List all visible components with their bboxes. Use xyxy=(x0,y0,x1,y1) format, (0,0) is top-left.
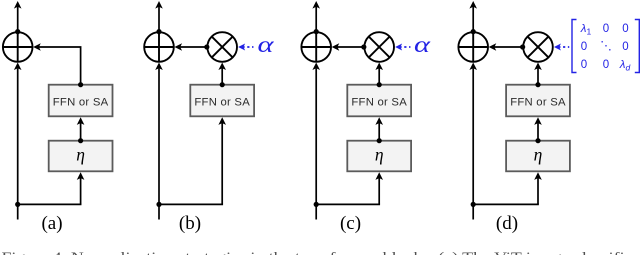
svg-text:0: 0 xyxy=(622,41,628,53)
arrow: top output (d) xyxy=(469,1,477,9)
wire: output of adder (c) to top xyxy=(315,7,317,33)
arrow: into adder bottom (b) xyxy=(155,62,163,70)
wire: input stub (b) xyxy=(158,204,160,219)
multiplier (circle-times) (c) xyxy=(364,32,394,62)
label: diagonal matrix diag(lambda_1..lambda_d) (d) xyxy=(572,20,639,73)
node: dot at multiplier left (d) xyxy=(520,44,525,49)
box: FFN or SA (a) xyxy=(49,85,113,117)
arrow: blue dotted scale input (b) xyxy=(242,46,253,48)
wire: residual branch (d) xyxy=(472,68,474,204)
svg-text:η: η xyxy=(375,144,384,164)
wire: FFN to multiplier (d) xyxy=(537,68,539,85)
box: eta normalization (d) xyxy=(506,141,570,172)
svg-text:0: 0 xyxy=(581,59,587,71)
svg-text:(c): (c) xyxy=(340,213,361,234)
box: eta normalization (c) xyxy=(347,141,411,172)
wire: multiplier to adder (b) xyxy=(180,46,207,48)
arrow: into eta bottom (c) xyxy=(375,172,383,180)
arrow: into adder bottom (d) xyxy=(469,62,477,70)
wire: FFN to multiplier (c) xyxy=(378,68,380,85)
wire: multiplier to adder (c) xyxy=(337,46,364,48)
svg-text:α: α xyxy=(414,31,431,57)
wire: residual branch (c) xyxy=(315,68,317,204)
wire: residual branch (a) xyxy=(17,68,19,204)
node: dot at adder output (b) xyxy=(156,29,161,34)
svg-text:η: η xyxy=(534,144,543,164)
arrow: into adder right (d) xyxy=(489,43,497,51)
node: dot at FFN output (d) xyxy=(535,82,540,87)
multiplier (circle-times) (b) xyxy=(207,32,237,62)
adder (circle-plus) (d) xyxy=(458,32,488,62)
arrow: blue dotted scale input (d) xyxy=(558,46,569,48)
svg-text:FFN or SA: FFN or SA xyxy=(510,97,566,109)
arrow: into adder right (c) xyxy=(332,43,340,51)
arrow: into eta bottom (a) xyxy=(77,172,85,180)
arrow: top output (a) xyxy=(14,1,22,9)
svg-text:0: 0 xyxy=(581,41,587,53)
node: dot at FFN output (b) xyxy=(220,82,225,87)
svg-text:0: 0 xyxy=(622,23,628,35)
arrow: into adder bottom (a) xyxy=(14,62,22,70)
arrow: into FFN bottom (b) xyxy=(218,117,226,125)
node: dot at eta output (d) xyxy=(535,138,540,143)
node: dot at adder output (d) xyxy=(471,29,476,34)
svg-text:(b): (b) xyxy=(179,213,201,234)
arrow: into multiplier bottom (c) xyxy=(375,62,383,70)
svg-text:α: α xyxy=(258,31,275,57)
arrow: into eta bottom (d) xyxy=(534,172,542,180)
box: FFN or SA (d) xyxy=(506,85,570,117)
svg-text:0: 0 xyxy=(603,59,609,71)
svg-text:FFN or SA: FFN or SA xyxy=(194,97,250,109)
node: dot at FFN output (c) xyxy=(377,82,382,87)
node: dot at FFN output (a) xyxy=(78,82,83,87)
box: eta normalization (a) xyxy=(49,141,113,172)
arrow: into adder bottom (c) xyxy=(312,62,320,70)
node: dot at multiplier left (c) xyxy=(361,44,366,49)
svg-text:0: 0 xyxy=(603,23,609,35)
wire: eta to FFN (c) xyxy=(378,122,380,141)
wire: output of adder (d) to top xyxy=(472,7,474,33)
arrow: top output (b) xyxy=(155,1,163,9)
node: bottom junction dot (c) xyxy=(314,202,319,207)
wire: multiplier to adder (d) xyxy=(494,46,522,48)
node: dot at eta output (a) xyxy=(78,138,83,143)
node: bottom junction dot (d) xyxy=(471,202,476,207)
adder (circle-plus) (a) xyxy=(3,32,33,62)
arrow: into FFN bottom (a) xyxy=(77,117,85,125)
multiplier (circle-times) (d) xyxy=(523,32,553,62)
arrow: into multiplier bottom (d) xyxy=(534,62,542,70)
svg-text:FFN or SA: FFN or SA xyxy=(53,97,109,109)
adder (circle-plus) (b) xyxy=(144,32,174,62)
wire: junction to module column (b) xyxy=(158,203,223,205)
adder (circle-plus) (c) xyxy=(301,32,331,62)
node: bottom junction dot (a) xyxy=(15,202,20,207)
arrow: top output (c) xyxy=(312,1,320,9)
svg-text:λd: λd xyxy=(619,59,631,73)
node: dot at eta output (c) xyxy=(377,138,382,143)
wire: eta to FFN (a) xyxy=(80,122,82,141)
svg-text:η: η xyxy=(76,144,85,164)
box: FFN or SA (b) xyxy=(190,85,254,117)
wire: junction to module column (a) xyxy=(17,203,82,205)
wire: FFN to multiplier (b) xyxy=(221,68,223,85)
arrow: blue dotted scale input (c) xyxy=(399,46,410,48)
node: dot at multiplier left (b) xyxy=(204,44,209,49)
arrow: into adder right (b) xyxy=(174,43,182,51)
node: bottom junction dot (b) xyxy=(156,202,161,207)
wire: input stub (a) xyxy=(17,204,19,219)
svg-text:λ1: λ1 xyxy=(580,23,592,37)
arrow: into FFN bottom (d) xyxy=(534,117,542,125)
box: FFN or SA (c) xyxy=(347,85,411,117)
svg-text:⋱: ⋱ xyxy=(600,40,612,52)
svg-text:(d): (d) xyxy=(496,213,518,234)
wire: junction to module column (d) xyxy=(472,203,538,205)
arrow: into adder right (a) xyxy=(33,43,41,51)
arrow: into FFN bottom (c) xyxy=(375,117,383,125)
svg-text:FFN or SA: FFN or SA xyxy=(351,97,407,109)
wire: input stub (d) xyxy=(472,204,474,219)
wire: residual branch (b) xyxy=(158,68,160,204)
svg-text:(a): (a) xyxy=(41,213,62,234)
wire: FFN around to adder (a) xyxy=(38,47,80,85)
wire: eta to FFN (d) xyxy=(537,122,539,141)
wire: output of adder (a) to top xyxy=(17,7,19,33)
wire: junction to module column (c) xyxy=(315,203,380,205)
arrow: into multiplier bottom (b) xyxy=(218,62,226,70)
node: dot at adder output (a) xyxy=(15,29,20,34)
node: dot at adder output (c) xyxy=(314,29,319,34)
wire: output of adder (b) to top xyxy=(158,7,160,33)
svg-text:Figure 4: Normalization strate: Figure 4: Normalization strategies in th… xyxy=(2,249,632,255)
wire: input stub (c) xyxy=(315,204,317,219)
